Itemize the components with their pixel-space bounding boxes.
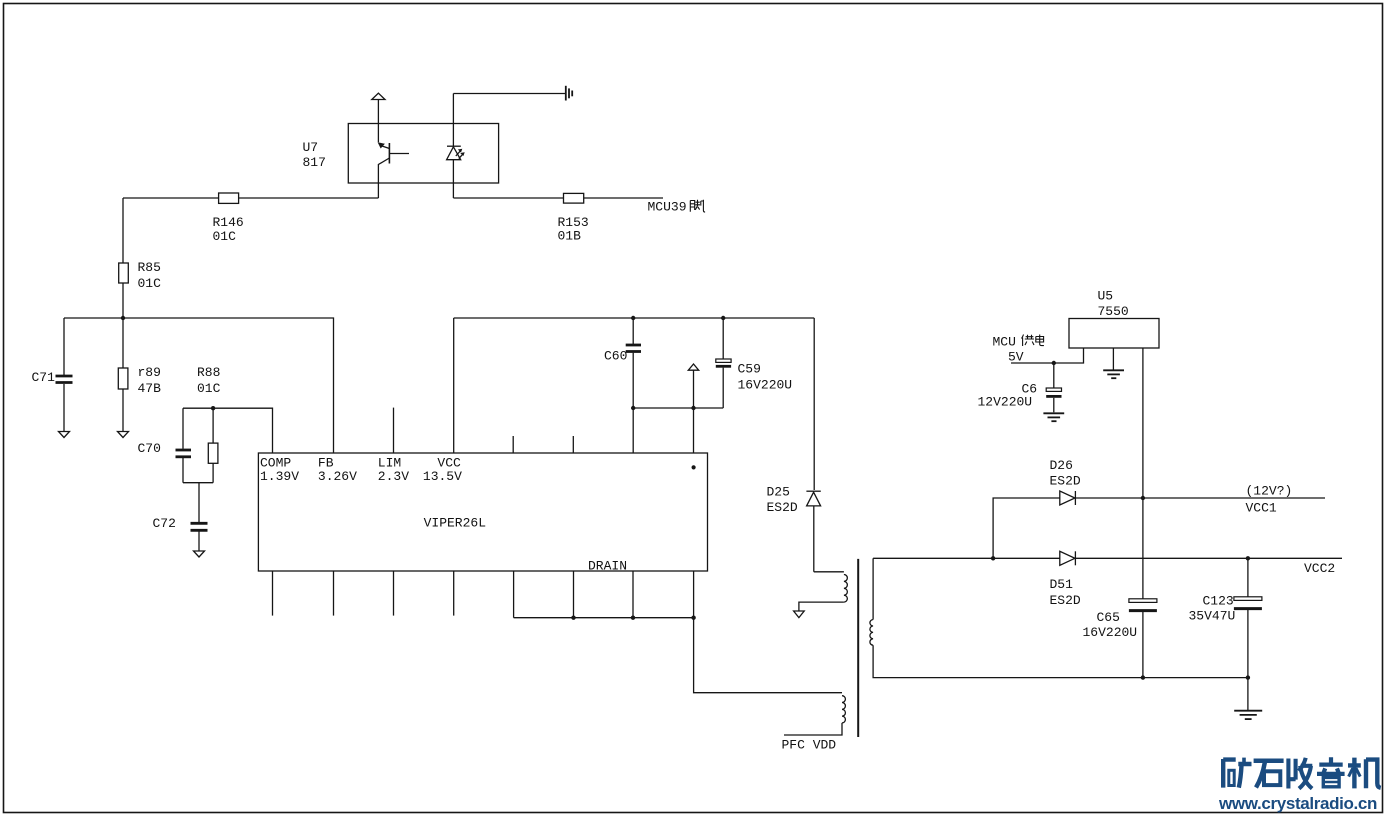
svg-text:ES2D: ES2D	[1050, 474, 1081, 489]
svg-text:16V220U: 16V220U	[738, 378, 793, 393]
transformer winding W2 (secondary)	[870, 558, 1248, 677]
svg-text:D26: D26	[1050, 458, 1073, 473]
capacitor C71	[32, 318, 73, 432]
capacitor C60	[604, 318, 641, 453]
hanzi kuang	[1223, 758, 1251, 788]
svg-text:817: 817	[303, 155, 326, 170]
capacitor C70	[138, 408, 192, 483]
U5 pin3 wire down to VCC1	[1142, 348, 1144, 498]
svg-text:VIPER26L: VIPER26L	[424, 516, 486, 531]
svg-text:7550: 7550	[1098, 304, 1129, 319]
hanzi ji	[1348, 758, 1381, 789]
diode D25	[767, 318, 821, 572]
ground arrow below r89	[118, 432, 129, 438]
wire: pin8 to W3	[694, 618, 842, 693]
label MCU supply (Chinese: gong dian as paths)	[1022, 335, 1044, 347]
svg-text:VCC1: VCC1	[1246, 501, 1277, 516]
svg-text:01C: 01C	[197, 381, 221, 396]
svg-text:C123: C123	[1203, 594, 1234, 609]
ground below C6	[1043, 413, 1064, 421]
hanzi jiao (leg)	[690, 201, 694, 212]
wire: opto LED to R153	[453, 197, 563, 199]
IC U? VIPER26L box	[258, 453, 707, 571]
svg-text:C65: C65	[1097, 610, 1120, 625]
svg-text:C70: C70	[138, 441, 161, 456]
hanzi shou	[1288, 758, 1312, 789]
capacitor C59 (polarized)	[716, 318, 792, 408]
svg-text:16V220U: 16V220U	[1083, 625, 1138, 640]
bottom pins 5-8 bus	[513, 571, 515, 618]
power arrow above opto collector	[372, 93, 385, 99]
svg-text:ES2D: ES2D	[1050, 593, 1081, 608]
diode D51	[1050, 551, 1081, 608]
wire: left horizontal to opto emitter	[123, 197, 378, 199]
U5 pin1 wire to 5V node	[1011, 348, 1084, 363]
ground below C123	[1234, 711, 1262, 719]
watermark logo: kuang shi shou yin ji (crystal radio)	[1223, 757, 1381, 788]
capacitor C65 (polarized)	[1083, 498, 1157, 678]
svg-text:3.26V: 3.26V	[318, 469, 357, 484]
svg-text:C72: C72	[153, 516, 176, 531]
svg-text:2.3V: 2.3V	[378, 469, 409, 484]
svg-text:D25: D25	[767, 485, 790, 500]
svg-text:C71: C71	[32, 370, 56, 385]
svg-text:D51: D51	[1050, 577, 1074, 592]
svg-text:PFC VDD: PFC VDD	[782, 738, 837, 753]
junction at R85 bottom	[121, 316, 125, 320]
ground arrow below W1	[794, 611, 805, 618]
ground (rotated) top right	[566, 86, 572, 101]
bottom pin stubs 1-4	[272, 571, 274, 616]
svg-text:U7: U7	[303, 140, 319, 155]
resistor R88	[208, 408, 218, 483]
svg-text:DRAIN: DRAIN	[588, 559, 627, 574]
net arrow (up) at pin8 line	[693, 370, 695, 453]
opto transistor Q (inside U7)	[378, 100, 409, 199]
svg-text:VCC2: VCC2	[1304, 561, 1335, 576]
diode D26	[1050, 458, 1081, 505]
svg-text:C60: C60	[604, 349, 627, 364]
capacitor C72	[153, 483, 208, 551]
hanzi yin	[1317, 757, 1345, 787]
wire: y=408 link	[633, 407, 723, 409]
svg-text:R88: R88	[197, 365, 220, 380]
wire: left bus y=318 to FB	[64, 318, 334, 453]
svg-text:ES2D: ES2D	[767, 500, 798, 515]
pin stubs top 5,6	[512, 436, 514, 453]
wire: R153 to MCU39	[584, 197, 663, 199]
svg-text:r89: r89	[138, 365, 161, 380]
node wire COMP: R88/C70 node to COMP pin	[183, 408, 273, 453]
svg-text:1.39V: 1.39V	[260, 469, 299, 484]
svg-text:R146: R146	[213, 215, 244, 230]
svg-text:www.crystalradio.cn: www.crystalradio.cn	[1218, 794, 1377, 813]
svg-text:C59: C59	[738, 362, 761, 377]
svg-text:47B: 47B	[138, 381, 162, 396]
resistor R153	[558, 193, 589, 243]
svg-text:MCU: MCU	[993, 335, 1016, 350]
resistor r89	[118, 318, 161, 432]
wire: bottom of C70/R88	[183, 482, 213, 484]
resistor R146	[213, 193, 244, 244]
transformer winding W3 (PFC VDD)	[784, 696, 845, 735]
IC U5 7550	[1069, 289, 1159, 349]
svg-text:R85: R85	[138, 260, 161, 275]
svg-text:MCU39: MCU39	[648, 200, 687, 215]
svg-text:5V: 5V	[1008, 350, 1024, 365]
pin1 dot inside chip	[692, 465, 696, 469]
capacitor C123 (polarized)	[1189, 558, 1262, 710]
wire: LED top to ground	[453, 93, 565, 95]
ground arrow below C71	[59, 432, 70, 438]
wire: VCC bus y=318	[453, 318, 455, 453]
svg-text:35V47U: 35V47U	[1189, 609, 1236, 624]
hanzi shi	[1254, 761, 1284, 788]
wire: vertical drop x=123 through R85	[122, 198, 124, 318]
ground arrow below C72	[194, 551, 205, 557]
svg-text:13.5V: 13.5V	[423, 469, 462, 484]
pin stub LIM top	[393, 408, 395, 453]
svg-text:12V220U: 12V220U	[978, 395, 1033, 410]
wire: D51 cathode to VCC2	[1075, 557, 1342, 559]
hanzi gong (supply)	[1022, 335, 1024, 347]
hanzi dian (electric)	[1036, 335, 1044, 346]
resistor R85	[119, 260, 161, 291]
ground below U5 pin2	[1103, 370, 1124, 378]
wire: secondary top to D51 line	[873, 557, 1060, 559]
opto U7 box	[348, 124, 498, 184]
U5 pin2 wire	[1112, 348, 1114, 370]
svg-text:01B: 01B	[558, 229, 582, 244]
transformer winding W1 (aux)	[799, 572, 847, 611]
svg-text:(12V?): (12V?)	[1246, 484, 1293, 499]
svg-text:01C: 01C	[213, 229, 237, 244]
wire: branch up to D26	[993, 498, 1060, 558]
svg-text:01C: 01C	[138, 276, 162, 291]
transformer core	[857, 559, 859, 737]
wire: D26 cathode to VCC1	[1075, 497, 1325, 499]
svg-text:U5: U5	[1098, 289, 1114, 304]
opto LED D (inside U7)	[447, 94, 465, 199]
capacitor C6 (polarized)	[978, 363, 1062, 412]
